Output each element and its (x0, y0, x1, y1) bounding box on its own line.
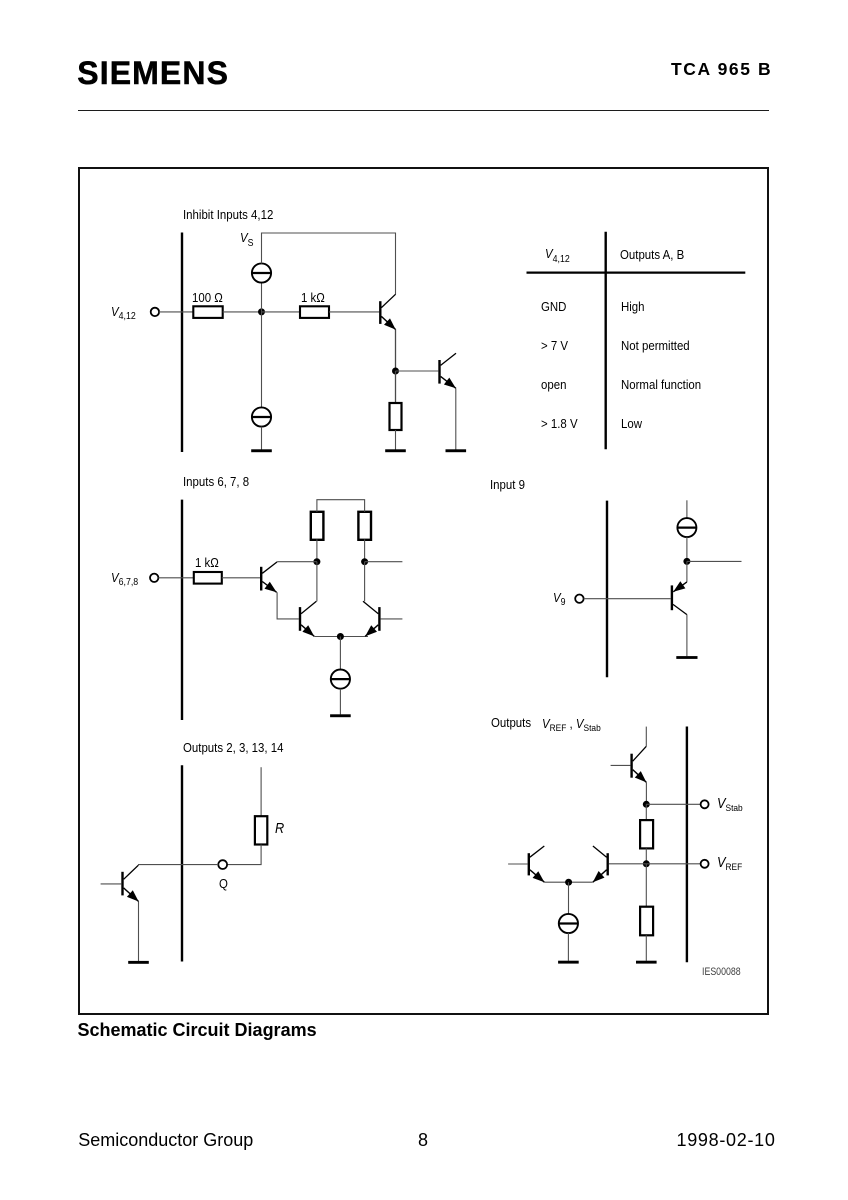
wire terminal V9 to Q7 base (584, 598, 671, 600)
table header rule (527, 272, 746, 274)
wire Q5 base to the right (381, 618, 403, 620)
label V9 (553, 591, 566, 605)
transistor Q7 (pnp) (672, 581, 687, 614)
wire Q4 emitter to common emitter node (314, 636, 368, 638)
ground under Q2 (446, 449, 467, 452)
wire CS4 to node E (686, 537, 688, 561)
ground under R8 (636, 961, 657, 964)
label Inhibit Inputs 4,12 (183, 208, 273, 221)
wire from supply to resistor R (260, 767, 262, 816)
output rail (bus) circuit 5 (686, 727, 688, 963)
input rail (bus) circuit 1 (181, 233, 183, 453)
transistor Q2 (npn) (440, 353, 457, 388)
wire R down and left to terminal Q (227, 845, 261, 865)
current source CS5 (559, 914, 578, 933)
label Not permitted (621, 339, 690, 352)
ground under Q7 (676, 656, 697, 659)
wire R5 to node C (316, 539, 318, 561)
terminal VStab (701, 800, 709, 808)
resistor R4 1 kOhm (194, 572, 222, 584)
label IES00088 (702, 967, 741, 978)
node E (683, 558, 690, 565)
label Input 9 (490, 478, 525, 491)
wire node G to VREF terminal (646, 863, 700, 865)
label Normal function (621, 378, 701, 391)
common wire Q9 Q10 emitters (544, 881, 592, 883)
ground under R3 (385, 449, 406, 452)
current source CS3 (331, 670, 350, 689)
resistor R (255, 816, 267, 844)
label R (275, 822, 284, 837)
transistor Q5 (npn right of pair) (363, 601, 379, 636)
part number TCA 965 B (671, 61, 772, 79)
common emitter node (337, 633, 344, 640)
wire node A down to current source CS2 (261, 312, 263, 408)
label Outputs A, B (620, 248, 684, 261)
resistor R1 100 Ohm (193, 306, 222, 318)
wire node C down to Q4 collector (316, 562, 318, 602)
ground under CS5 (558, 961, 579, 964)
label Outputs 2, 3, 13, 14 (183, 741, 283, 754)
wire R6 to node D (364, 539, 366, 561)
footer date (677, 1131, 776, 1149)
wire node F to VStab terminal (646, 803, 700, 805)
resistor R2 1 kOhm (300, 306, 329, 318)
node D (361, 558, 368, 565)
wire Q8 emitter to node F (645, 782, 647, 804)
terminal VREF (701, 860, 709, 868)
node B (392, 368, 399, 375)
label V4,12 (111, 305, 136, 319)
label VREF (717, 856, 742, 871)
transistor Q3 (npn input) (261, 562, 277, 592)
label 1 kOhm (301, 291, 325, 304)
wire node C to Q3 collector (277, 561, 317, 563)
node G (643, 860, 650, 867)
wire node E down to Q7 emitter (686, 561, 688, 582)
terminal V6,7,8 (150, 574, 158, 582)
transistor Q10 (npn right of mirror) (593, 846, 608, 882)
label VREF , VStab (542, 717, 601, 731)
label Low (621, 417, 642, 430)
label open (541, 378, 566, 391)
wire Q2 emitter to ground (455, 388, 457, 449)
label Inputs 6, 7, 8 (183, 475, 249, 488)
input rail (bus) circuit 4 (606, 501, 608, 678)
transistor Q9 (npn left of mirror) (529, 846, 545, 882)
Q8 base stub (611, 764, 631, 766)
wire node G down to R8 (645, 864, 647, 907)
footer page number (418, 1131, 428, 1149)
Q8 collector stub up (645, 727, 647, 747)
transistor Q8 (npn) (632, 746, 647, 782)
label > 7 V (541, 339, 568, 352)
node A (258, 308, 265, 315)
wire node B to Q2 base (396, 370, 439, 372)
wire node D to the right (output A) (365, 561, 403, 563)
wire Q7 collector to ground (686, 615, 688, 657)
label 100 Ohm (192, 291, 223, 304)
wire Q1 emitter to node B (395, 330, 397, 371)
transistor Q1 (npn) (380, 294, 395, 329)
supply wire joining R5 R6 (317, 500, 365, 512)
wire R7 to node G (645, 848, 647, 863)
header rule (78, 110, 769, 111)
wire node G left to Q10 base (609, 863, 646, 865)
label > 1.8 V (541, 417, 578, 430)
label 1 kOhm (195, 556, 219, 569)
wire node B down to R3 (395, 371, 397, 403)
ground under Q6 (128, 961, 149, 964)
Q6 base stub (101, 883, 122, 885)
label High (621, 300, 645, 313)
wire node A to R2 (262, 311, 301, 313)
wire CS3 to ground (339, 689, 341, 715)
load resistor R6 (right) (358, 512, 371, 540)
transistor Q6 (npn output) (123, 865, 139, 901)
transistor Q4 (npn left of pair) (300, 601, 316, 636)
current source CS1 (252, 263, 271, 282)
wire node D down to Q5 collector (364, 562, 366, 602)
wire Q6 emitter to ground (138, 902, 140, 962)
node H (565, 879, 572, 886)
label Q (219, 877, 228, 890)
node C (313, 558, 320, 565)
wire R4 to Q3 base (222, 577, 260, 579)
wire R3 to ground (395, 430, 397, 450)
wire node F to R7 (645, 804, 647, 820)
wire node A up to current source CS1 (261, 283, 263, 312)
label Outputs (491, 716, 531, 729)
resistor R8 (640, 907, 653, 936)
input rail (bus) circuit 2 (181, 500, 183, 720)
supply stub wire (686, 500, 688, 518)
caption (78, 1021, 317, 1039)
footer left (78, 1131, 253, 1149)
label VS (240, 231, 254, 245)
terminal Q (open circle) (218, 860, 227, 869)
label VStab (717, 797, 743, 812)
current source CS2 (252, 407, 271, 426)
wire R2 to Q1 base (329, 311, 379, 313)
wire terminal to R1 (159, 311, 193, 313)
wire CS5 to ground (567, 933, 569, 961)
ground under CS2 (251, 449, 272, 452)
SIEMENS logo (77, 57, 229, 89)
VS supply wire to Q1 collector (262, 233, 396, 295)
Q9 base stub (508, 863, 528, 865)
wire terminal Q to Q6 collector (138, 864, 218, 866)
terminal V9 (575, 595, 583, 603)
ground under CS3 (330, 714, 351, 717)
node F (643, 801, 650, 808)
terminal V4,12 (151, 308, 159, 316)
resistor R3 (390, 403, 402, 430)
current source CS4 (677, 518, 696, 537)
wire Q3 emitter down and to Q4 base (277, 592, 299, 619)
wire R1 to node A (223, 311, 262, 313)
wire CS2 to ground (261, 427, 263, 450)
wire terminal to R4 (158, 577, 193, 579)
resistor R7 (640, 820, 653, 848)
diagram frame box (78, 167, 769, 1016)
label V4,12 (545, 247, 570, 261)
wire common emitter node to CS3 (339, 637, 341, 670)
wire R8 to ground (645, 935, 647, 961)
load resistor R5 (left) (311, 512, 324, 540)
wire node H to CS5 (568, 882, 570, 914)
output rail (bus) circuit 3 (181, 765, 183, 961)
label V6,7,8 (111, 571, 138, 585)
table vertical divider (605, 232, 607, 449)
wire node E to the right (687, 560, 742, 562)
label GND (541, 300, 566, 313)
